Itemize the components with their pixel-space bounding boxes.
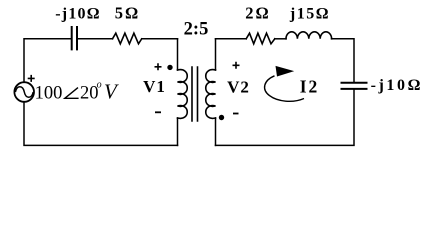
transformer secondary winding <box>206 70 216 119</box>
wire R1 to transformer primary lead <box>142 38 178 40</box>
right mesh top wire: secondary to resistor R2 <box>216 38 247 40</box>
svg-text:V2: V2 <box>227 77 250 96</box>
resistor R2 2ohm zigzag <box>246 33 275 44</box>
V2 minus sign <box>233 113 239 115</box>
svg-text:V: V <box>104 79 119 103</box>
svg-text:-j10Ω: -j10Ω <box>371 77 423 94</box>
secondary polarity dot <box>219 115 224 120</box>
svg-text:2Ω: 2Ω <box>245 3 270 22</box>
resistor R1 5ohm zigzag <box>113 33 142 44</box>
svg-text:V1: V1 <box>143 77 166 96</box>
I2 arrowhead <box>276 66 295 77</box>
source V 100ang20 circle <box>14 82 34 102</box>
V1 minus sign <box>155 111 161 113</box>
angle symbol of source phasor <box>65 88 79 99</box>
primary bottom lead down <box>177 118 179 145</box>
capacitor C2 -j10ohm plates <box>342 83 367 89</box>
wire inductor to right corner, down to capacitor C2 <box>332 39 354 83</box>
primary polarity dot <box>167 65 172 70</box>
svg-text:5Ω: 5Ω <box>115 3 140 22</box>
svg-text:100: 100 <box>35 83 63 103</box>
svg-text:I2: I2 <box>300 76 320 96</box>
I2 loop arrow arc <box>265 76 304 102</box>
transformer primary lead down <box>177 39 179 70</box>
svg-text:j15Ω: j15Ω <box>289 5 330 22</box>
wire R2 to inductor L1 <box>275 38 286 40</box>
left mesh bottom wire <box>24 102 178 146</box>
svg-text:-j10Ω: -j10Ω <box>55 5 100 22</box>
svg-text:o: o <box>97 80 102 91</box>
V2 plus sign <box>233 62 240 69</box>
source plus sign <box>28 75 35 82</box>
transformer primary winding <box>178 70 188 119</box>
wire top-left: source top to capacitor <box>24 39 71 82</box>
inductor L1 j15ohm bumps <box>286 32 332 39</box>
svg-text:2:5: 2:5 <box>184 19 209 39</box>
capacitor C1 -j10ohm plates <box>72 27 77 49</box>
transformer secondary lead up <box>215 39 217 70</box>
V1 plus sign <box>155 63 162 70</box>
right mesh bottom wire <box>216 89 355 145</box>
source sine wave <box>15 87 33 98</box>
transformer core lines <box>192 67 198 121</box>
wire capacitor to resistor R1 <box>78 38 113 40</box>
secondary bottom lead down <box>215 118 217 145</box>
